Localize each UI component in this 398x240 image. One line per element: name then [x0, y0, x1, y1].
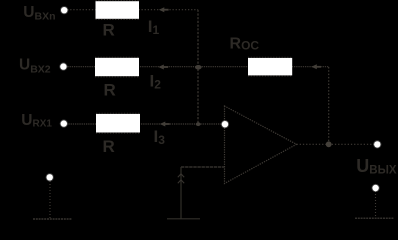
svg-text:R: R	[103, 137, 115, 156]
svg-text:ROC: ROC	[230, 36, 260, 53]
svg-text:R: R	[103, 21, 115, 40]
svg-text:R: R	[104, 81, 116, 100]
